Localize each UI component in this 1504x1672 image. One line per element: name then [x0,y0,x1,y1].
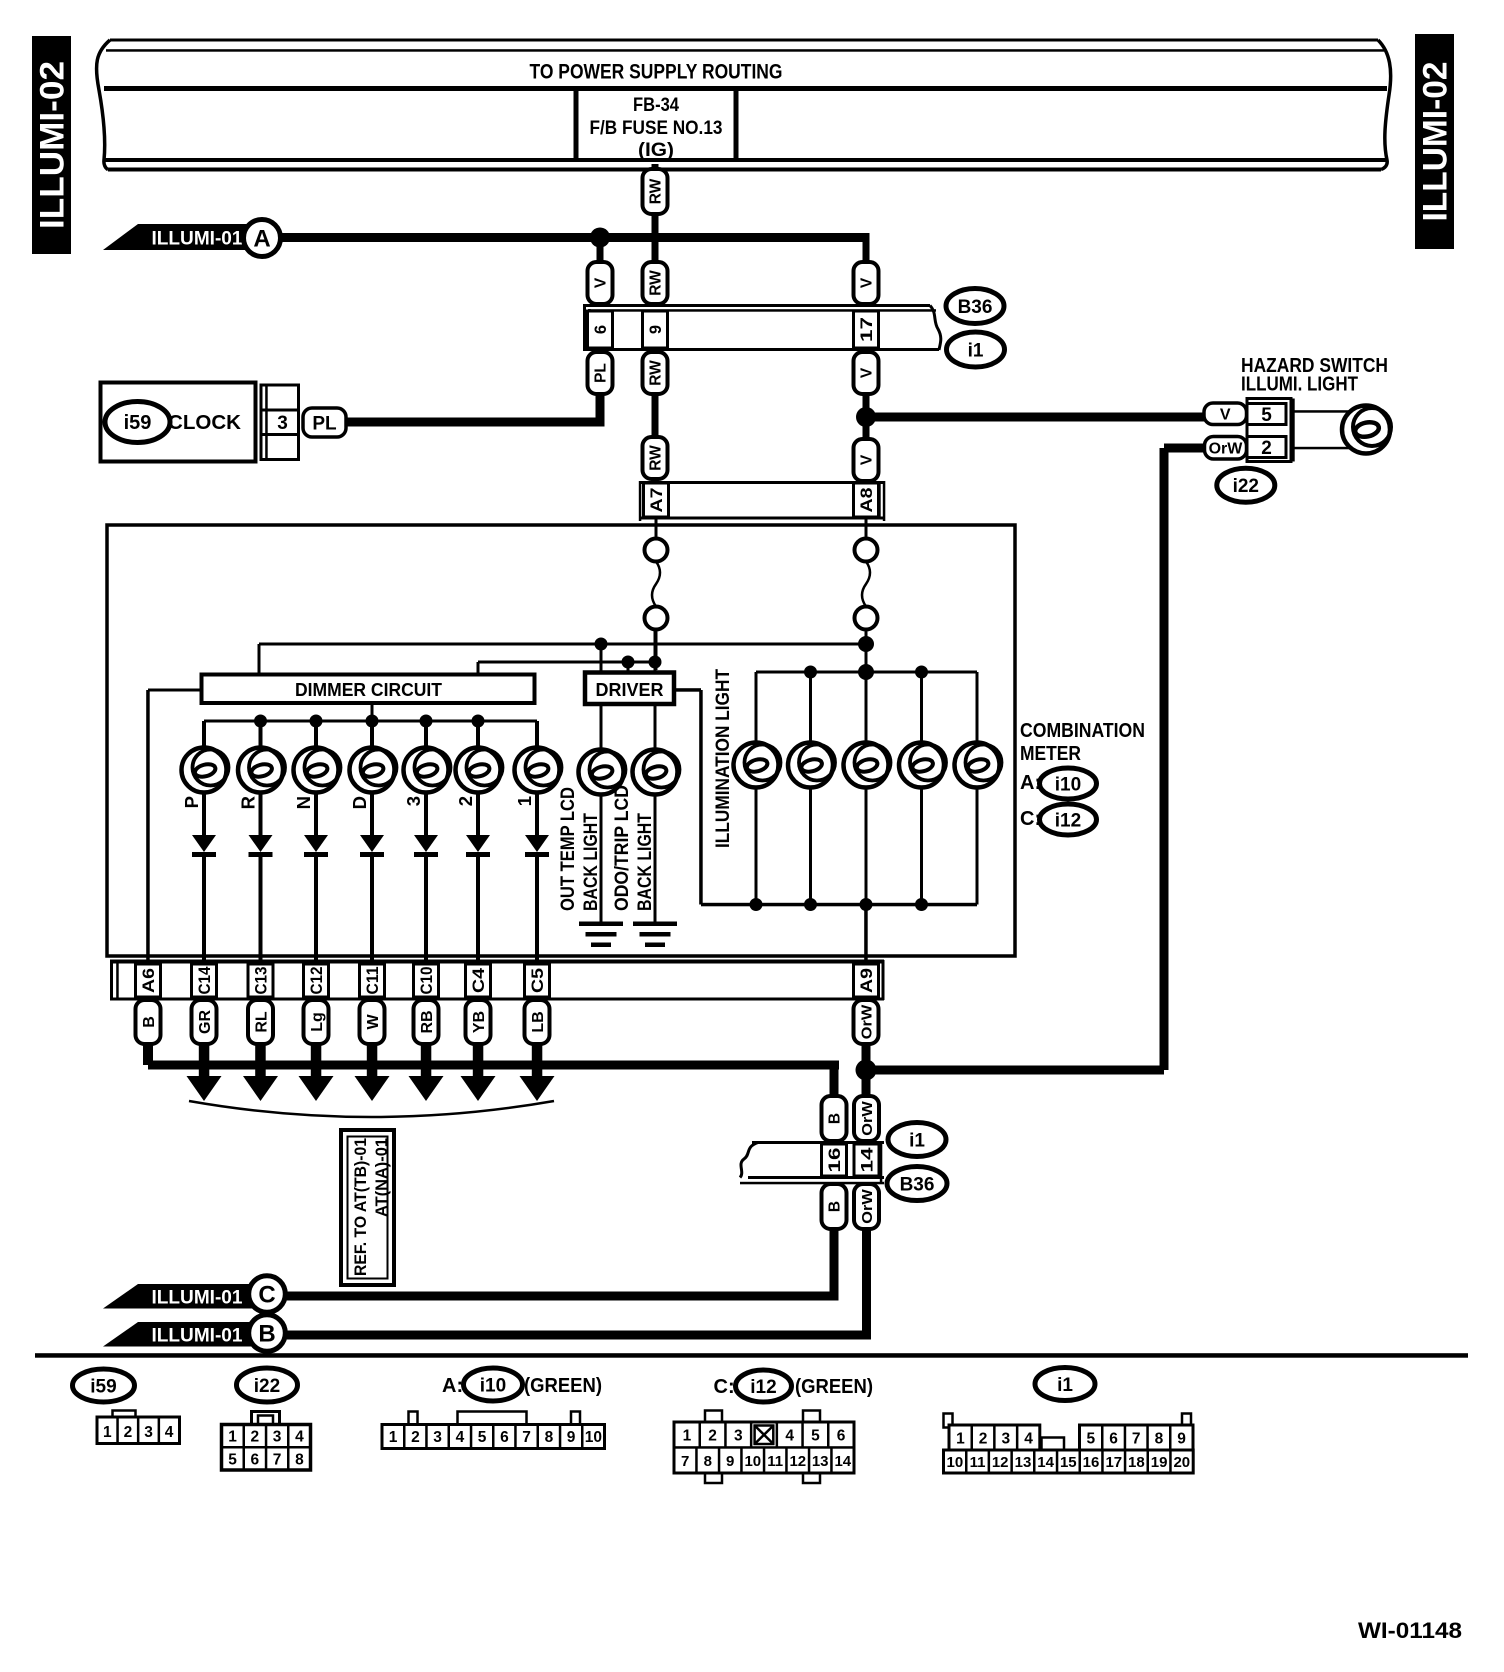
wire label GR (below band) [192,1000,217,1044]
svg-text:V: V [1220,407,1231,424]
wire diode 1 down [535,856,539,964]
svg-text:B: B [258,1321,275,1348]
indicator lamp 2 [456,748,501,793]
arrow YB to AT diagram [473,1044,484,1084]
svg-text:6: 6 [1109,1431,1118,1448]
wire L2 branch a to driver [627,662,630,673]
wire lamp P top [202,721,206,750]
wire OrW vertical (hazard to meter) [1160,448,1169,1070]
wire illum lamp 2 top [809,672,812,747]
connector meter band A7/A8 [639,481,884,484]
diode N [304,835,328,852]
wire illum lamp 1 bottom [755,786,758,905]
wire label OrW (above 14) [854,1096,879,1141]
wire PL clock to riser [346,418,605,427]
junction dot lamp bus x478 [472,715,485,728]
svg-text:GR: GR [197,1010,214,1034]
diode R [249,835,273,852]
svg-text:PL: PL [593,363,610,383]
wire V from A banner [280,233,866,242]
wire OrW hazard to corner [1164,444,1205,453]
svg-text:4: 4 [456,1429,465,1446]
hazard illumination bulb [1342,406,1390,454]
wire illum lamp 1 top [755,672,758,747]
svg-text:C11: C11 [364,967,382,995]
svg-text:W: W [365,1014,382,1030]
wire lamp P to diode [202,791,206,836]
svg-text:A6: A6 [140,968,158,993]
svg-text:i12: i12 [750,1377,776,1398]
svg-text:9: 9 [1177,1431,1186,1448]
svg-text:3: 3 [403,796,424,806]
connector ref oval i22 [1217,468,1275,502]
connector i1 pin 6 cell [588,311,613,348]
indicator lamp P [182,748,227,793]
wire A7 column to supply line [655,630,658,671]
wire V to hazard switch [866,413,1204,422]
svg-text:TO POWER SUPPLY ROUTING: TO POWER SUPPLY ROUTING [530,61,783,84]
dimmer circuit box [202,675,535,704]
wire OrW down to B line [862,1229,871,1339]
wire RW pin9 down [652,394,659,437]
svg-text:(GREEN): (GREEN) [795,1376,873,1398]
wire label OrW (hazard) [1205,437,1247,460]
svg-text:B36: B36 [900,1174,935,1195]
junction dot illum bottom x866 [860,898,873,911]
svg-text:C5: C5 [529,968,547,993]
indicator lamp R [238,748,283,793]
svg-text:V: V [859,277,876,288]
component clock box [101,383,256,462]
svg-text:1: 1 [956,1431,965,1448]
wire V corner down to pin 17 [863,233,870,262]
connector i22 block [1247,399,1291,462]
svg-text:1: 1 [228,1429,237,1446]
svg-text:20: 20 [1173,1454,1190,1471]
svg-text:9: 9 [647,325,665,334]
wire lamp N top [314,721,318,750]
svg-text:P: P [181,796,202,808]
lcd backlight lamp 2 [633,750,678,795]
wire label LB (below band) [525,1000,550,1044]
wire lamp N to diode [314,791,318,836]
svg-text:A: A [253,226,270,253]
connector ref oval i59 (clock) [105,402,170,443]
illumination lamp 5 [955,743,1000,788]
svg-text:17: 17 [858,317,876,342]
svg-text:ILLUMI-01: ILLUMI-01 [152,1324,243,1346]
wire label B (below band) [136,1000,161,1044]
svg-text:14: 14 [834,1453,851,1470]
svg-text:BACK LIGHT: BACK LIGHT [634,813,656,911]
svg-text:ODO/TRIP LCD: ODO/TRIP LCD [611,785,633,911]
connector meter pin A8 cell [854,483,879,517]
svg-text:DIMMER CIRCUIT: DIMMER CIRCUIT [295,679,443,700]
wire V pin17 down [863,394,870,439]
connector i1 pin 16 cell [822,1144,847,1176]
fuse cell divider left [574,89,579,161]
illumination lamp 4 [899,743,944,788]
svg-text:C10: C10 [418,967,436,995]
svg-text:1: 1 [683,1428,692,1445]
svg-text:ILLUMI-02: ILLUMI-02 [34,61,72,229]
svg-text:N: N [293,796,314,809]
svg-text:DRIVER: DRIVER [596,679,664,700]
junction dot L2 a [622,656,635,669]
svg-text:7: 7 [1132,1431,1141,1448]
wire illum lamp 2 bottom [809,786,812,905]
wire label V (A8 above) [854,439,879,481]
brace arc under arrows [189,1101,554,1117]
wire label V (hazard) [1204,403,1247,425]
svg-text:3: 3 [144,1424,153,1441]
svg-text:BACK LIGHT: BACK LIGHT [580,813,602,911]
wire lamp 2 top [476,721,480,750]
svg-text:LB: LB [530,1011,547,1032]
junction dot illum top x866 [860,666,873,679]
wire dimmer left to B column [148,689,201,692]
junction dot L1-driver [595,638,608,651]
driver box [585,673,674,705]
svg-text:10: 10 [947,1454,964,1471]
svg-text:C4: C4 [470,967,488,993]
svg-text:i1: i1 [1057,1375,1073,1396]
svg-text:COMBINATION: COMBINATION [1020,720,1145,742]
connector banner ILLUMI-01 B [103,1322,255,1347]
svg-text:2: 2 [124,1424,133,1441]
wire OrW down to pill [862,1044,871,1096]
combination meter box outline [107,525,1015,956]
diode P [192,835,216,852]
svg-text:12: 12 [789,1453,806,1470]
svg-text:2: 2 [455,796,476,806]
wire lamp2 to ground [654,793,657,922]
wire diode D down [370,856,374,964]
wire label RB (below band) [414,1000,439,1044]
wire label RW (A7 above) [643,437,668,479]
svg-text:16: 16 [1083,1454,1100,1471]
svg-text:7: 7 [273,1452,282,1469]
svg-text:4: 4 [1024,1431,1033,1448]
svg-text:B: B [827,1113,844,1124]
wire RW from fuse [652,164,659,172]
svg-text:C14: C14 [196,966,214,995]
svg-text:8: 8 [704,1453,712,1470]
svg-text:7: 7 [522,1429,531,1446]
svg-text:5: 5 [228,1452,237,1469]
wire label OrW (below A9) [854,1000,879,1044]
wire A8 column down [865,630,868,673]
svg-text:6: 6 [250,1452,259,1469]
wire label V (pin17 above) [854,262,879,304]
svg-text:RW: RW [648,445,665,471]
svg-text:OrW: OrW [858,1004,875,1039]
junction dot OrW [856,1060,877,1081]
wire label YB (below band) [466,1000,491,1044]
connector meter pin C4 cell [466,964,491,997]
wire B horizontal [143,1044,153,1065]
wire lamp D to diode [370,791,374,836]
separator line [35,1353,1468,1358]
wire label RW (pin9 below) [643,352,668,394]
wire lamp 1 to diode [535,791,539,836]
wire dimmer bottom stub [371,703,374,721]
svg-text:D: D [349,796,370,809]
svg-text:ILLUMI-01: ILLUMI-01 [152,1286,243,1308]
svg-text:RW: RW [648,360,665,386]
connector i1 pin 17 cell [854,311,879,348]
svg-text:8: 8 [545,1429,554,1446]
svg-text:14: 14 [858,1146,876,1172]
ref box AT(TB)-01 AT(NA)-01 [341,1130,394,1285]
wire lamp 3 top [424,721,428,750]
svg-text:(IG): (IG) [638,139,674,161]
svg-text:11: 11 [970,1454,986,1471]
svg-text:i12: i12 [1055,810,1081,831]
svg-text:10: 10 [744,1453,761,1470]
connector meter pin C14 cell [192,964,217,997]
diode 3 [414,835,438,852]
wire illum lamp 4 bottom [920,786,923,905]
legend oval i59 [73,1369,135,1402]
svg-text:ILLUMINATION LIGHT: ILLUMINATION LIGHT [712,669,734,848]
svg-text:5: 5 [1086,1431,1095,1448]
svg-text:METER: METER [1020,743,1081,765]
svg-text:YB: YB [471,1011,488,1033]
svg-text:ILLUMI-01: ILLUMI-01 [152,228,243,250]
arrow RB to AT diagram [421,1044,432,1084]
svg-text:F/B FUSE NO.13: F/B FUSE NO.13 [590,117,723,139]
junction dot lamp bus x260 [254,715,267,728]
svg-text:3: 3 [273,1429,282,1446]
junction dot node V / pin6 branch [590,228,610,248]
connector i1 pin 9 cell [643,311,668,348]
wire illumination bottom bus [756,903,977,907]
junction dot lamp bus x372 [366,715,379,728]
connector i1/B36 band [583,304,930,307]
junction dot L2 b [649,656,662,669]
junction dot illum top x921 [915,666,928,679]
connector ref oval i1 [947,332,1005,367]
ground (odo/trip lcd) [633,922,677,927]
svg-text:1: 1 [514,796,535,806]
left page banner ILLUMI-02 [32,36,71,254]
svg-text:2: 2 [1261,438,1272,459]
connector banner ILLUMI-01 A [103,224,250,250]
svg-text:A8: A8 [858,488,876,513]
svg-text:3: 3 [433,1429,442,1446]
svg-text:ILLUMI-02: ILLUMI-02 [1417,62,1455,222]
illumination lamp 3 [844,743,889,788]
connector ref oval B36 (lower) [887,1167,947,1201]
indicator lamp 1 [515,748,560,793]
wire label B (above 16) [822,1096,847,1141]
wire diode R down [259,856,263,964]
connector ref oval i10 (A) [1040,768,1097,799]
svg-text:REF. TO AT(TB)-01: REF. TO AT(TB)-01 [352,1138,370,1276]
svg-text:(GREEN): (GREEN) [524,1375,602,1397]
wire lamp R to diode [259,791,263,836]
svg-text:V: V [593,277,610,288]
arrow GR to AT diagram [199,1044,210,1084]
connector meter pin C10 cell [414,964,439,997]
svg-text:V: V [859,367,876,378]
svg-text:Lg: Lg [309,1012,326,1032]
svg-text:8: 8 [1155,1431,1164,1448]
wire hazard pin5 to bulb [1291,410,1352,413]
svg-text:RL: RL [253,1011,270,1033]
svg-text:OrW: OrW [1209,441,1244,458]
svg-text:B36: B36 [958,297,993,318]
svg-text:PL: PL [312,413,337,434]
svg-text:2: 2 [250,1429,259,1446]
svg-text:11: 11 [767,1453,783,1470]
wire label B (below 16) [822,1184,847,1229]
wire label RW (fuse output) [643,169,668,214]
svg-text:6: 6 [837,1428,846,1445]
svg-text:6: 6 [500,1429,509,1446]
wire L2 ig supply [478,661,655,664]
indicator lamp N [294,748,339,793]
svg-text:5: 5 [811,1428,820,1445]
arrow RL to AT diagram [255,1044,266,1084]
svg-text:2: 2 [708,1428,717,1445]
wire V branch down to pin 6 [597,238,604,263]
svg-text:R: R [238,796,259,809]
svg-text:9: 9 [726,1453,734,1470]
svg-text:A:: A: [442,1375,463,1397]
wire illum lamp 3 bottom [865,786,868,905]
svg-text:13: 13 [812,1453,829,1470]
svg-text:AT(NA)-01: AT(NA)-01 [373,1138,391,1217]
svg-text:i1: i1 [909,1130,925,1151]
wire illum lamp 5 top [976,672,979,747]
svg-text:CLOCK: CLOCK [168,411,241,434]
svg-text:9: 9 [567,1429,576,1446]
junction dot illum top x810 [804,666,817,679]
svg-text:15: 15 [1060,1454,1077,1471]
legend oval i1 [1035,1368,1095,1401]
wire lamp D top [370,721,374,750]
arrow LB to AT diagram [532,1044,543,1084]
svg-text:i22: i22 [1233,476,1259,497]
wire A7 into meter [655,517,658,539]
junction dot lamp bus x316 [310,715,323,728]
connector meter pin A7 cell [644,483,669,517]
svg-text:12: 12 [992,1454,1009,1471]
wire lamp 3 to diode [424,791,428,836]
intermediate connector (A7 column) [645,539,668,562]
wire label OrW (below 14) [854,1184,879,1229]
junction dot A8 top bus [858,664,874,680]
indicator lamp D [350,748,395,793]
wire lamp R top [259,721,263,750]
connector meter pin C5 cell [525,964,550,997]
wire hazard pin2 to bulb [1291,447,1352,450]
wire label PL (pin6 below) [588,352,613,394]
svg-text:OUT TEMP LCD: OUT TEMP LCD [557,787,579,911]
svg-text:7: 7 [681,1453,689,1470]
diode 2 [466,835,490,852]
svg-text:2: 2 [979,1431,988,1448]
arrow Lg to AT diagram [311,1044,322,1084]
wire A9 column [864,905,868,965]
connector meter pin A6 cell [136,964,161,997]
wire label PL (clock) [303,408,346,437]
svg-text:1: 1 [103,1424,112,1441]
svg-text:i10: i10 [1055,774,1081,795]
legend oval i22 [237,1368,298,1402]
svg-text:6: 6 [592,325,610,334]
svg-text:i59: i59 [90,1376,116,1397]
connector ref oval i1 (lower) [888,1123,946,1157]
wire lamp 1 top [535,721,539,750]
svg-text:5: 5 [1261,405,1272,426]
power supply bus ribbon [110,39,1378,42]
wire L1 dimmer supply [259,643,866,646]
wire label V (pin6 above) [588,262,613,304]
wire RW to A-line [652,214,659,262]
connector i1/B36 band (lower) [752,1141,884,1144]
svg-text:4: 4 [785,1428,794,1445]
wire diode 2 down [476,856,480,964]
junction dot illum bottom x810 [804,898,817,911]
svg-text:i10: i10 [480,1375,506,1396]
connector i1 pin 14 cell [854,1144,879,1176]
junction dot hazard branch [856,407,876,427]
svg-text:C12: C12 [308,967,326,995]
wire OrW horizontal [866,1066,1164,1075]
svg-text:i22: i22 [254,1376,280,1397]
wire label RL (below band) [248,1000,273,1044]
diode 1 [525,835,549,852]
diode D [360,835,384,852]
legend oval i12 [736,1370,792,1402]
connector meter pin A9 cell [854,964,879,997]
wire L2 branch b to driver [654,630,657,674]
svg-text:13: 13 [1015,1454,1032,1471]
wire driver out2 [654,704,657,752]
svg-text:3: 3 [1001,1431,1010,1448]
wire illumination top bus [756,671,977,674]
illumination lamp 1 [734,743,779,788]
ground (out temp lcd) [579,922,623,927]
svg-text:8: 8 [295,1452,304,1469]
svg-text:i1: i1 [968,340,984,361]
wire lamp bus [204,720,537,723]
svg-text:19: 19 [1151,1454,1168,1471]
svg-text:OrW: OrW [859,1100,876,1135]
wire label V (pin17 below) [854,352,879,394]
wire illum lamp 5 bottom [976,786,979,905]
svg-text:V: V [859,454,876,465]
wire diode 3 down [424,856,428,964]
svg-text:10: 10 [585,1429,602,1446]
wire lamp 2 to diode [476,791,480,836]
svg-text:3: 3 [277,413,288,434]
svg-text:ILLUMI. LIGHT: ILLUMI. LIGHT [1241,373,1358,396]
connector banner ILLUMI-01 C [103,1284,255,1309]
wire label RW (pin9 above) [643,262,668,304]
wire L1 branch to driver [600,644,603,673]
legend connector i10 pinout [409,1412,418,1426]
wire PL riser [596,394,605,422]
indicator lamp 3 [404,748,449,793]
junction dot L1 at A8 column [858,636,874,652]
svg-text:i59: i59 [124,412,152,434]
svg-text:A9: A9 [858,968,876,993]
svg-text:14: 14 [1037,1454,1054,1471]
